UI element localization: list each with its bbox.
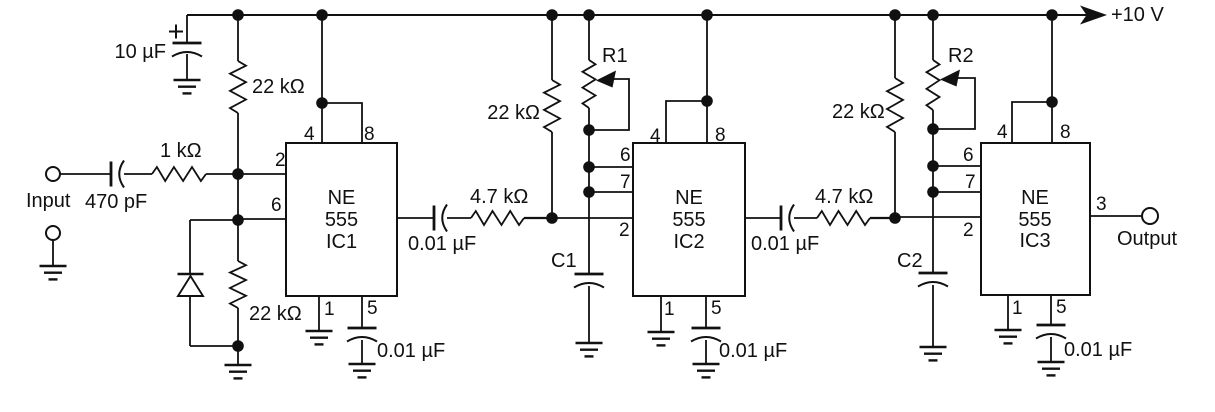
junction rail-R5 bbox=[546, 9, 558, 21]
ground bbox=[995, 330, 1022, 343]
svg-text:5: 5 bbox=[367, 298, 378, 319]
wire IC2 pin8 to pin4 link bbox=[666, 101, 707, 143]
junction rail-R6 bbox=[889, 9, 901, 21]
resistor R6 22k bbox=[887, 78, 903, 132]
wire IC1 pin1 to ground bbox=[318, 296, 320, 331]
svg-text:C1: C1 bbox=[551, 250, 577, 272]
svg-text:5: 5 bbox=[711, 298, 722, 319]
wire R4 to IC1 pin2 bbox=[206, 173, 286, 175]
wire R7 to node C bbox=[237, 308, 239, 346]
wire R2 to C2 bbox=[932, 110, 934, 273]
wire diode to node C bbox=[189, 296, 191, 346]
junction rail-IC1pin4 bbox=[316, 9, 328, 21]
junction IC2 pin7 node bbox=[583, 186, 595, 198]
svg-text:R2: R2 bbox=[948, 45, 974, 67]
svg-text:1: 1 bbox=[1012, 298, 1023, 319]
svg-text:NE: NE bbox=[675, 187, 703, 209]
svg-text:7: 7 bbox=[965, 172, 976, 193]
wire node E to IC3 pin2 bbox=[895, 216, 981, 218]
ground bbox=[174, 80, 201, 93]
ground bbox=[648, 332, 675, 345]
wire C1 to ground bbox=[588, 286, 590, 343]
junction R2 bottom bbox=[927, 123, 939, 135]
capacitor C1 bbox=[574, 274, 604, 288]
junction IC3 pin7 node bbox=[927, 186, 939, 198]
wire to IC3 pin6 bbox=[933, 165, 981, 167]
resistor R8 4.7k bbox=[471, 211, 524, 225]
svg-text:NE: NE bbox=[328, 187, 356, 209]
wire +10V rail bbox=[187, 14, 1087, 16]
+10 V arrow bbox=[1080, 6, 1107, 25]
svg-text:1: 1 bbox=[324, 299, 335, 320]
svg-text:8: 8 bbox=[715, 125, 726, 146]
capacitor C6 0.01 uF bbox=[434, 205, 447, 232]
wire rail to C3 bbox=[186, 15, 188, 43]
wire terminal to ground bbox=[52, 240, 54, 266]
wire C3 to ground bbox=[186, 54, 188, 80]
wire rail to R5 bbox=[551, 15, 553, 80]
wire to IC2 pin6 bbox=[589, 166, 633, 168]
wire to IC3 pin7 bbox=[933, 191, 981, 193]
wire IC2 pin1 to ground bbox=[660, 296, 662, 332]
svg-text:7: 7 bbox=[620, 172, 631, 193]
svg-text:0.01 µF: 0.01 µF bbox=[408, 233, 476, 255]
wire node D to IC2 pin2 bbox=[552, 217, 633, 219]
svg-text:4: 4 bbox=[650, 126, 661, 147]
wire IC3 pin8 to pin4 link bbox=[1012, 102, 1052, 143]
svg-text:555: 555 bbox=[672, 209, 705, 231]
svg-text:5: 5 bbox=[1056, 297, 1067, 318]
wire C2 to ground bbox=[932, 285, 934, 347]
capacitor C7 0.01 uF bbox=[691, 328, 721, 342]
svg-text:555: 555 bbox=[325, 209, 358, 231]
svg-text:C2: C2 bbox=[897, 250, 923, 272]
svg-text:IC2: IC2 bbox=[673, 231, 704, 253]
svg-text:10 µF: 10 µF bbox=[114, 41, 166, 63]
wire C9 to ground bbox=[1050, 337, 1052, 362]
wire rail to R1 bbox=[588, 15, 590, 60]
wire IC3 pin3 to output bbox=[1090, 215, 1142, 217]
capacitor C5 0.01 uF bbox=[347, 328, 377, 342]
junction node C bbox=[232, 340, 244, 352]
svg-text:2: 2 bbox=[963, 220, 974, 241]
ground bbox=[40, 266, 67, 279]
svg-text:4: 4 bbox=[997, 122, 1008, 143]
svg-text:4.7 kΩ: 4.7 kΩ bbox=[470, 186, 528, 208]
wire IC2 pin3 to C8 bbox=[745, 217, 781, 219]
junction rail-IC2pin8 bbox=[701, 9, 713, 21]
svg-text:IC1: IC1 bbox=[326, 231, 357, 253]
svg-text:22 kΩ: 22 kΩ bbox=[487, 102, 540, 124]
junction rail-R3 bbox=[232, 9, 244, 21]
svg-text:6: 6 bbox=[620, 145, 631, 166]
wire to diode cathode bbox=[189, 220, 191, 274]
wire rail to R6 bbox=[894, 15, 896, 78]
diode D1 bbox=[178, 274, 204, 296]
resistor R3 22k bbox=[230, 61, 246, 113]
wire R1 to C1 bbox=[588, 108, 590, 274]
wire IC1 pin4 to pin8 link bbox=[322, 103, 362, 143]
svg-text:555: 555 bbox=[1018, 209, 1051, 231]
ground terminal bbox=[46, 226, 60, 240]
wire C4 to R4 bbox=[124, 173, 152, 175]
svg-text:8: 8 bbox=[1060, 122, 1071, 143]
svg-text:R1: R1 bbox=[602, 45, 628, 67]
resistor R7 22k bbox=[230, 261, 246, 308]
svg-text:4.7 kΩ: 4.7 kΩ bbox=[815, 186, 873, 208]
svg-text:22 kΩ: 22 kΩ bbox=[249, 303, 302, 325]
svg-text:22 kΩ: 22 kΩ bbox=[832, 101, 885, 123]
ground bbox=[349, 364, 376, 377]
resistor R9 4.7k bbox=[817, 211, 870, 225]
svg-text:0.01 µF: 0.01 µF bbox=[719, 340, 787, 362]
wire node B to R7 bbox=[237, 220, 239, 261]
wire to IC2 pin7 bbox=[589, 191, 633, 193]
wire rail to R2 bbox=[932, 15, 934, 60]
junction IC3 pin6 node bbox=[927, 160, 939, 172]
wire IC1 pin5 to cap bbox=[361, 296, 363, 328]
capacitor C2 bbox=[918, 273, 948, 287]
junction node E bbox=[889, 212, 901, 224]
wire node B to diode bbox=[190, 219, 238, 221]
ground bbox=[693, 364, 720, 377]
svg-text:Input: Input bbox=[26, 190, 71, 212]
wire C5 to ground bbox=[361, 340, 363, 364]
resistor R5 22k bbox=[544, 80, 560, 132]
wire IC1 pin3 to C6 bbox=[397, 217, 434, 219]
junction rail-R2 bbox=[927, 9, 939, 21]
capacitor C8 0.01 uF bbox=[781, 205, 794, 232]
svg-text:Output: Output bbox=[1117, 228, 1177, 250]
svg-text:0.01 µF: 0.01 µF bbox=[377, 340, 445, 362]
junction IC2 pin4-8 link bbox=[701, 95, 713, 107]
ground bbox=[306, 331, 333, 344]
svg-text:1: 1 bbox=[664, 299, 675, 320]
capacitor C4 470 pF bbox=[111, 161, 124, 188]
wire input to C4 bbox=[60, 173, 111, 175]
svg-text:2: 2 bbox=[275, 150, 286, 171]
svg-text:6: 6 bbox=[963, 145, 974, 166]
junction node D bbox=[546, 212, 558, 224]
wire IC2 pin5 to cap bbox=[705, 296, 707, 328]
junction rail-R1 bbox=[583, 9, 595, 21]
capacitor C9 0.01 uF bbox=[1036, 325, 1066, 339]
op-amp/timer U1 NE555 IC1 bbox=[286, 143, 397, 296]
svg-text:470 pF: 470 pF bbox=[85, 191, 147, 213]
svg-text:1 kΩ: 1 kΩ bbox=[160, 140, 202, 162]
wire C6 to R8 bbox=[447, 217, 471, 219]
junction R1 bottom bbox=[583, 124, 595, 136]
potentiometer R2 bbox=[927, 60, 940, 110]
junction rail-IC3pin8 bbox=[1046, 9, 1058, 21]
ground bbox=[576, 343, 603, 356]
ground bbox=[1038, 362, 1065, 375]
R2 wiper arrow bbox=[940, 70, 960, 87]
junction IC2 pin6 node bbox=[583, 161, 595, 173]
svg-text:22 kΩ: 22 kΩ bbox=[252, 76, 305, 98]
svg-text:IC3: IC3 bbox=[1019, 230, 1050, 252]
wire node C to ground bbox=[237, 346, 239, 365]
wire R1 wiper bbox=[589, 79, 629, 130]
junction node A bbox=[232, 168, 244, 180]
output terminal bbox=[1142, 208, 1158, 224]
input terminal bbox=[46, 167, 60, 181]
junction node B bbox=[232, 214, 244, 226]
ground bbox=[920, 347, 947, 360]
R1 wiper arrow bbox=[596, 71, 616, 88]
wire R6 to node E bbox=[894, 132, 896, 218]
ground bbox=[225, 365, 252, 378]
junction IC3 pin4-8 link bbox=[1046, 96, 1058, 108]
op-amp/timer U3 NE555 IC3 bbox=[981, 143, 1090, 295]
wire IC3 pin5 to cap bbox=[1050, 295, 1052, 325]
svg-text:3: 3 bbox=[1096, 194, 1107, 215]
svg-text:0.01 µF: 0.01 µF bbox=[1064, 339, 1132, 361]
wire rail to IC1 pin4 bbox=[321, 15, 323, 143]
wire R2 wiper bbox=[933, 78, 975, 129]
wire rail to IC3 pin8 bbox=[1051, 15, 1053, 143]
wire node B to IC1 pin6 bbox=[238, 218, 286, 220]
wire diode to node C horizontal bbox=[190, 345, 238, 347]
wire R9 to node E bbox=[870, 217, 895, 219]
plus sign C3 bbox=[169, 25, 183, 39]
svg-text:0.01 µF: 0.01 µF bbox=[751, 233, 819, 255]
svg-text:6: 6 bbox=[271, 195, 282, 216]
wire rail to R3 bbox=[237, 15, 239, 61]
wire R5 to node D bbox=[551, 132, 553, 218]
wire rail to IC2 pin8 bbox=[706, 15, 708, 143]
svg-text:8: 8 bbox=[364, 124, 375, 145]
wire R3 to node A bbox=[237, 113, 239, 174]
resistor R4 1k bbox=[152, 167, 206, 181]
op-amp/timer U2 NE555 IC2 bbox=[633, 143, 745, 296]
wire IC3 pin1 to ground bbox=[1007, 295, 1009, 330]
svg-text:4: 4 bbox=[304, 124, 315, 145]
svg-text:+10 V: +10 V bbox=[1111, 4, 1164, 26]
wire C7 to ground bbox=[705, 340, 707, 364]
capacitor C3 10 uF bbox=[172, 43, 202, 57]
junction IC1 pin4-8 link bbox=[316, 97, 328, 109]
wire node A to node B bbox=[237, 174, 239, 220]
svg-text:2: 2 bbox=[619, 220, 630, 241]
wire C8 to R9 bbox=[794, 217, 817, 219]
potentiometer R1 bbox=[583, 60, 596, 108]
wire R8 to node D bbox=[524, 217, 552, 219]
svg-text:NE: NE bbox=[1021, 187, 1049, 209]
